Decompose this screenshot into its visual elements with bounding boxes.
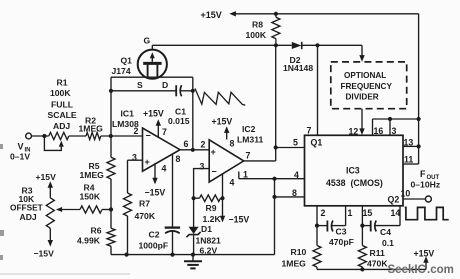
power -15V arrow at R3 <box>34 228 55 258</box>
power +15V arrow at R3 <box>36 172 57 198</box>
svg-text:−15V: −15V <box>229 215 250 225</box>
svg-text:11: 11 <box>404 155 413 165</box>
node left rail at C1 loop <box>109 89 113 93</box>
op-amp IC1 <box>143 128 181 171</box>
svg-text:+15V: +15V <box>143 109 164 119</box>
node D2 cathode junction <box>315 43 319 47</box>
wire C1 right rail <box>192 77 194 150</box>
label R9 1.2K <box>203 203 222 224</box>
svg-text:FULL: FULL <box>51 100 73 110</box>
pin 4 <box>294 170 299 180</box>
label FOUT 0-10Hz <box>411 169 441 190</box>
svg-text:16: 16 <box>374 126 384 136</box>
pin 7 <box>307 126 312 136</box>
node R7 ground junction <box>125 253 129 257</box>
svg-text:OFFSET: OFFSET <box>10 203 43 213</box>
wire feedback to R8 <box>275 45 277 161</box>
wire R4 to rail <box>102 209 111 211</box>
capacitor C3 <box>317 221 346 232</box>
svg-text:R1: R1 <box>57 78 68 88</box>
wire gate line left <box>152 44 291 46</box>
label D2 1N4148 <box>283 55 313 73</box>
svg-text:R8: R8 <box>252 20 263 30</box>
node R4 rail junction <box>109 207 113 211</box>
wire input to R1 <box>32 135 49 137</box>
label D1 1N821 6.2V <box>196 224 222 256</box>
resistor R2 <box>86 132 101 139</box>
svg-text:14: 14 <box>391 208 401 218</box>
svg-text:6: 6 <box>184 139 189 149</box>
wire divider to IC3 pin 12 <box>359 109 364 135</box>
label R2 1MEG <box>79 116 104 134</box>
resistor R6 <box>107 228 115 246</box>
svg-text:1000pF: 1000pF <box>139 241 169 251</box>
label C3 470pF <box>329 227 354 248</box>
svg-text:1: 1 <box>348 208 353 218</box>
wire into divider <box>359 45 364 61</box>
wire right supply rail <box>418 14 420 164</box>
svg-text:Q1: Q1 <box>121 56 133 66</box>
wire ground rail <box>111 254 275 256</box>
pin 12 <box>349 127 359 137</box>
svg-text:1MEG: 1MEG <box>80 170 105 180</box>
svg-text:0–1V: 0–1V <box>10 152 30 162</box>
svg-text:1N4148: 1N4148 <box>283 63 313 73</box>
wire IC2 pin 1 to IC3 pin 4 <box>239 172 305 179</box>
label R3 10K OFFSET ADJ <box>10 186 43 223</box>
svg-text:1MEG: 1MEG <box>282 259 307 269</box>
svg-text:4: 4 <box>294 170 299 180</box>
resistor R5 <box>107 157 115 179</box>
svg-text:LM311: LM311 <box>237 135 263 145</box>
resistor R8 <box>272 14 280 46</box>
svg-text:C1: C1 <box>175 107 186 117</box>
svg-text:.com: .com <box>427 264 454 276</box>
wire IC3 pin 16 <box>373 119 419 135</box>
svg-text:13: 13 <box>404 138 414 148</box>
svg-text:ADJ: ADJ <box>20 212 37 222</box>
wire IC1 pin 8 to C2 <box>172 154 174 227</box>
svg-text:4.99K: 4.99K <box>77 236 101 246</box>
pin 15 <box>363 208 373 218</box>
svg-text:+15V: +15V <box>414 249 435 259</box>
wire gate lead <box>151 45 153 50</box>
pin 14 <box>391 208 401 218</box>
node C3 left junction <box>315 224 319 228</box>
svg-text:0–10Hz: 0–10Hz <box>411 180 441 190</box>
wire IC3 pin 3 <box>389 119 391 135</box>
node reference junction <box>192 196 196 200</box>
svg-text:SeekIC: SeekIC <box>388 264 426 276</box>
svg-text:V: V <box>18 142 24 152</box>
svg-text:100K: 100K <box>246 30 267 40</box>
resistor R11 <box>358 226 366 270</box>
svg-text:ADJ: ADJ <box>53 121 70 131</box>
pin 1 <box>348 208 353 218</box>
label R5 1MEG <box>80 161 105 180</box>
svg-text:C3: C3 <box>336 227 347 237</box>
node R8 top junction <box>274 12 278 16</box>
svg-text:4: 4 <box>162 164 167 174</box>
svg-text:8: 8 <box>176 154 181 164</box>
wire R7 to ground rail <box>127 216 129 255</box>
capacitor C4 <box>362 221 400 232</box>
node R8 bottom junction <box>274 43 278 47</box>
wire IC1 output to IC2 <box>180 149 209 151</box>
wire IC3 pin 8 to ground rail <box>275 179 305 255</box>
svg-text:OPTIONAL: OPTIONAL <box>344 71 386 80</box>
svg-text:Q2: Q2 <box>388 195 400 205</box>
waveform square wave <box>405 207 449 219</box>
svg-text:R6: R6 <box>91 226 102 236</box>
svg-text:+15V: +15V <box>36 172 57 182</box>
svg-text:SCALE: SCALE <box>48 110 77 120</box>
node summing junction <box>109 134 113 138</box>
node C4 left junction <box>360 224 364 228</box>
node pin 8 junction <box>272 195 276 199</box>
svg-text:+15V: +15V <box>201 10 222 20</box>
node C2 ground junction <box>170 253 174 257</box>
label G <box>144 36 151 46</box>
svg-text:−: − <box>146 131 151 141</box>
label R11 470K <box>367 248 388 269</box>
node R11 rail junction <box>360 267 364 271</box>
svg-text:8: 8 <box>230 139 235 149</box>
svg-text:(CMOS): (CMOS) <box>351 178 383 188</box>
svg-text:7: 7 <box>307 126 312 136</box>
svg-text:G: G <box>144 36 151 46</box>
resistor R10 <box>313 226 321 270</box>
wire timing supply rail <box>317 268 426 270</box>
svg-text:2: 2 <box>321 208 326 218</box>
node pin 13 junction <box>417 144 421 148</box>
resistor R7 <box>124 193 132 216</box>
svg-text:Q1: Q1 <box>311 138 323 148</box>
node FOUT output terminal <box>425 196 431 202</box>
node VIN input terminal <box>26 133 32 139</box>
svg-text:470K: 470K <box>367 259 388 269</box>
pin 3 <box>392 126 397 136</box>
svg-text:5: 5 <box>293 138 298 148</box>
pin 8 <box>176 154 181 164</box>
pin 3 <box>132 153 137 163</box>
wire R9 to -15V line <box>194 197 223 199</box>
wire IC3 pin 7 <box>317 45 319 135</box>
svg-text:+: + <box>145 157 150 167</box>
wire IC3 pin 15 <box>361 206 363 226</box>
pin 2 <box>134 126 139 136</box>
wire R2 to IC1 pin 2 <box>101 135 143 137</box>
wire R1 wiper loop <box>44 136 63 150</box>
svg-text:−: − <box>212 167 217 177</box>
svg-text:150K: 150K <box>80 192 101 202</box>
pin 11 <box>404 155 413 165</box>
potentiometer R3 <box>46 198 54 228</box>
svg-text:J174: J174 <box>112 66 131 76</box>
svg-text:FREQUENCY: FREQUENCY <box>341 82 393 91</box>
node supply rail junction <box>417 117 421 121</box>
pin 3 <box>200 162 205 172</box>
svg-text:R7: R7 <box>139 199 150 209</box>
scan artifacts <box>0 144 130 275</box>
ground <box>184 255 202 269</box>
label IC3 4538 (CMOS) <box>311 138 400 205</box>
svg-text:15: 15 <box>363 208 373 218</box>
wire Q1 loop top <box>111 76 193 78</box>
svg-text:3: 3 <box>132 153 137 163</box>
transistor Q1 <box>138 50 167 79</box>
label R6 4.99K <box>77 226 102 246</box>
waveform sawtooth <box>195 89 245 106</box>
diode D2 <box>292 42 302 49</box>
label C4 0.1 <box>380 227 394 248</box>
wire IC3 pin 1 <box>345 206 347 226</box>
label OPTIONAL FREQUENCY DIVIDER <box>341 71 393 101</box>
capacitor C1 <box>111 85 193 96</box>
pin 4 -15V arrow <box>145 163 167 197</box>
svg-text:IC3: IC3 <box>346 166 360 176</box>
label S <box>137 80 143 90</box>
svg-text:F: F <box>420 169 426 179</box>
wire IC3 pin 2 <box>316 206 318 226</box>
svg-text:D1: D1 <box>201 224 212 234</box>
wire IC3 pin 11 <box>403 163 419 165</box>
svg-text:R10: R10 <box>291 247 307 257</box>
svg-text:C2: C2 <box>149 230 160 240</box>
pin 4 -15V arrow <box>220 174 250 225</box>
resistor R9 <box>200 195 221 202</box>
node integrator feedback junction <box>191 148 195 152</box>
svg-text:470K: 470K <box>135 211 156 221</box>
label R10 1MEG <box>282 247 307 269</box>
svg-text:2: 2 <box>201 140 206 150</box>
svg-text:3: 3 <box>200 162 205 172</box>
svg-text:+: + <box>211 147 216 157</box>
pin 5 <box>293 138 298 148</box>
label C1 0.015 <box>168 107 190 127</box>
svg-text:470pF: 470pF <box>329 237 354 247</box>
wire R3 wiper to R4 <box>56 207 80 212</box>
label Q1 J174 <box>112 56 133 77</box>
wire IC2 pin 3 to reference <box>194 169 210 199</box>
svg-text:0.015: 0.015 <box>168 116 190 126</box>
svg-text:4: 4 <box>230 178 235 188</box>
svg-text:S: S <box>137 80 143 90</box>
svg-text:1N821: 1N821 <box>196 235 222 245</box>
pin 10 <box>401 189 411 199</box>
svg-text:IC2: IC2 <box>242 124 256 134</box>
svg-text:D: D <box>162 80 168 90</box>
IC U3 4538 <box>305 135 404 206</box>
wire R1 to R2 <box>69 135 86 137</box>
block optional frequency divider <box>331 62 407 109</box>
label D <box>162 80 168 90</box>
svg-text:IC1: IC1 <box>121 109 135 119</box>
svg-text:0.1: 0.1 <box>382 238 394 248</box>
op-amp IC2 <box>209 140 244 182</box>
svg-text:R9: R9 <box>206 203 217 213</box>
svg-text:1.2K: 1.2K <box>203 214 222 224</box>
wire left rail middle <box>110 179 112 228</box>
svg-text:1: 1 <box>243 170 248 180</box>
svg-text:R11: R11 <box>370 248 386 258</box>
diode D1 <box>186 198 200 254</box>
pin 13 <box>404 138 414 148</box>
label C2 1000pF <box>139 230 169 251</box>
wire IC2 output <box>244 160 276 162</box>
svg-text:−15V: −15V <box>145 188 166 198</box>
node R9 right junction <box>220 196 224 200</box>
pin 6 <box>184 139 189 149</box>
power +15V arrow bottom right <box>414 249 435 270</box>
svg-text:7: 7 <box>246 151 251 161</box>
label IC2 LM311 <box>237 124 263 145</box>
wire IC1 pin 3 <box>128 160 143 193</box>
svg-text:+15V: +15V <box>212 117 233 127</box>
watermark SeekIC.com <box>388 264 454 276</box>
svg-text:3: 3 <box>392 126 397 136</box>
svg-text:−15V: −15V <box>34 249 55 259</box>
label R1 100K FULL SCALE ADJ <box>48 78 77 132</box>
pin 2 <box>321 208 326 218</box>
svg-text:7: 7 <box>162 127 167 137</box>
label R4 150K <box>80 183 101 202</box>
label R7 470K <box>135 199 156 222</box>
capacitor C2 <box>165 228 180 255</box>
svg-text:DIVIDER: DIVIDER <box>346 92 379 101</box>
node input junction <box>42 134 46 138</box>
wire D2 to divider <box>302 44 362 46</box>
label R8 100K <box>246 20 267 41</box>
node C1 right junction <box>191 89 195 93</box>
svg-text:1MEG: 1MEG <box>79 124 104 134</box>
pin 16 <box>374 126 384 136</box>
wire IC3 pin 13 <box>403 145 419 147</box>
pin 1 <box>243 170 248 180</box>
pin 2 <box>201 140 206 150</box>
wire to IC3 pin 5 <box>276 147 305 149</box>
label IC1 LM308 <box>112 109 139 130</box>
pin 8 +15V arrow <box>212 117 235 149</box>
svg-text:C4: C4 <box>380 227 391 237</box>
label VIN 0-1V <box>10 142 31 162</box>
power +15V top rail <box>201 10 419 20</box>
pin 8 <box>292 188 297 198</box>
svg-text:4538: 4538 <box>326 178 346 188</box>
pin 7 +15V arrow <box>143 109 167 138</box>
wire IC3 pin 10 output <box>403 198 425 200</box>
wire IC3 pin 14 <box>399 206 401 226</box>
svg-text:100K: 100K <box>50 88 71 98</box>
node pin 4 junction <box>272 177 276 181</box>
svg-text:10: 10 <box>401 189 411 199</box>
svg-text:2: 2 <box>134 126 139 136</box>
node IC3 pin 5 junction <box>274 145 278 149</box>
svg-text:8: 8 <box>292 188 297 198</box>
node D1 ground junction <box>191 253 195 257</box>
resistor R1 <box>49 132 69 139</box>
node pin 3 junction <box>388 117 392 121</box>
wire left rail upper <box>110 77 112 157</box>
pin 7 <box>246 151 251 161</box>
resistor R4 <box>80 206 102 213</box>
wire left rail lower <box>110 246 112 254</box>
